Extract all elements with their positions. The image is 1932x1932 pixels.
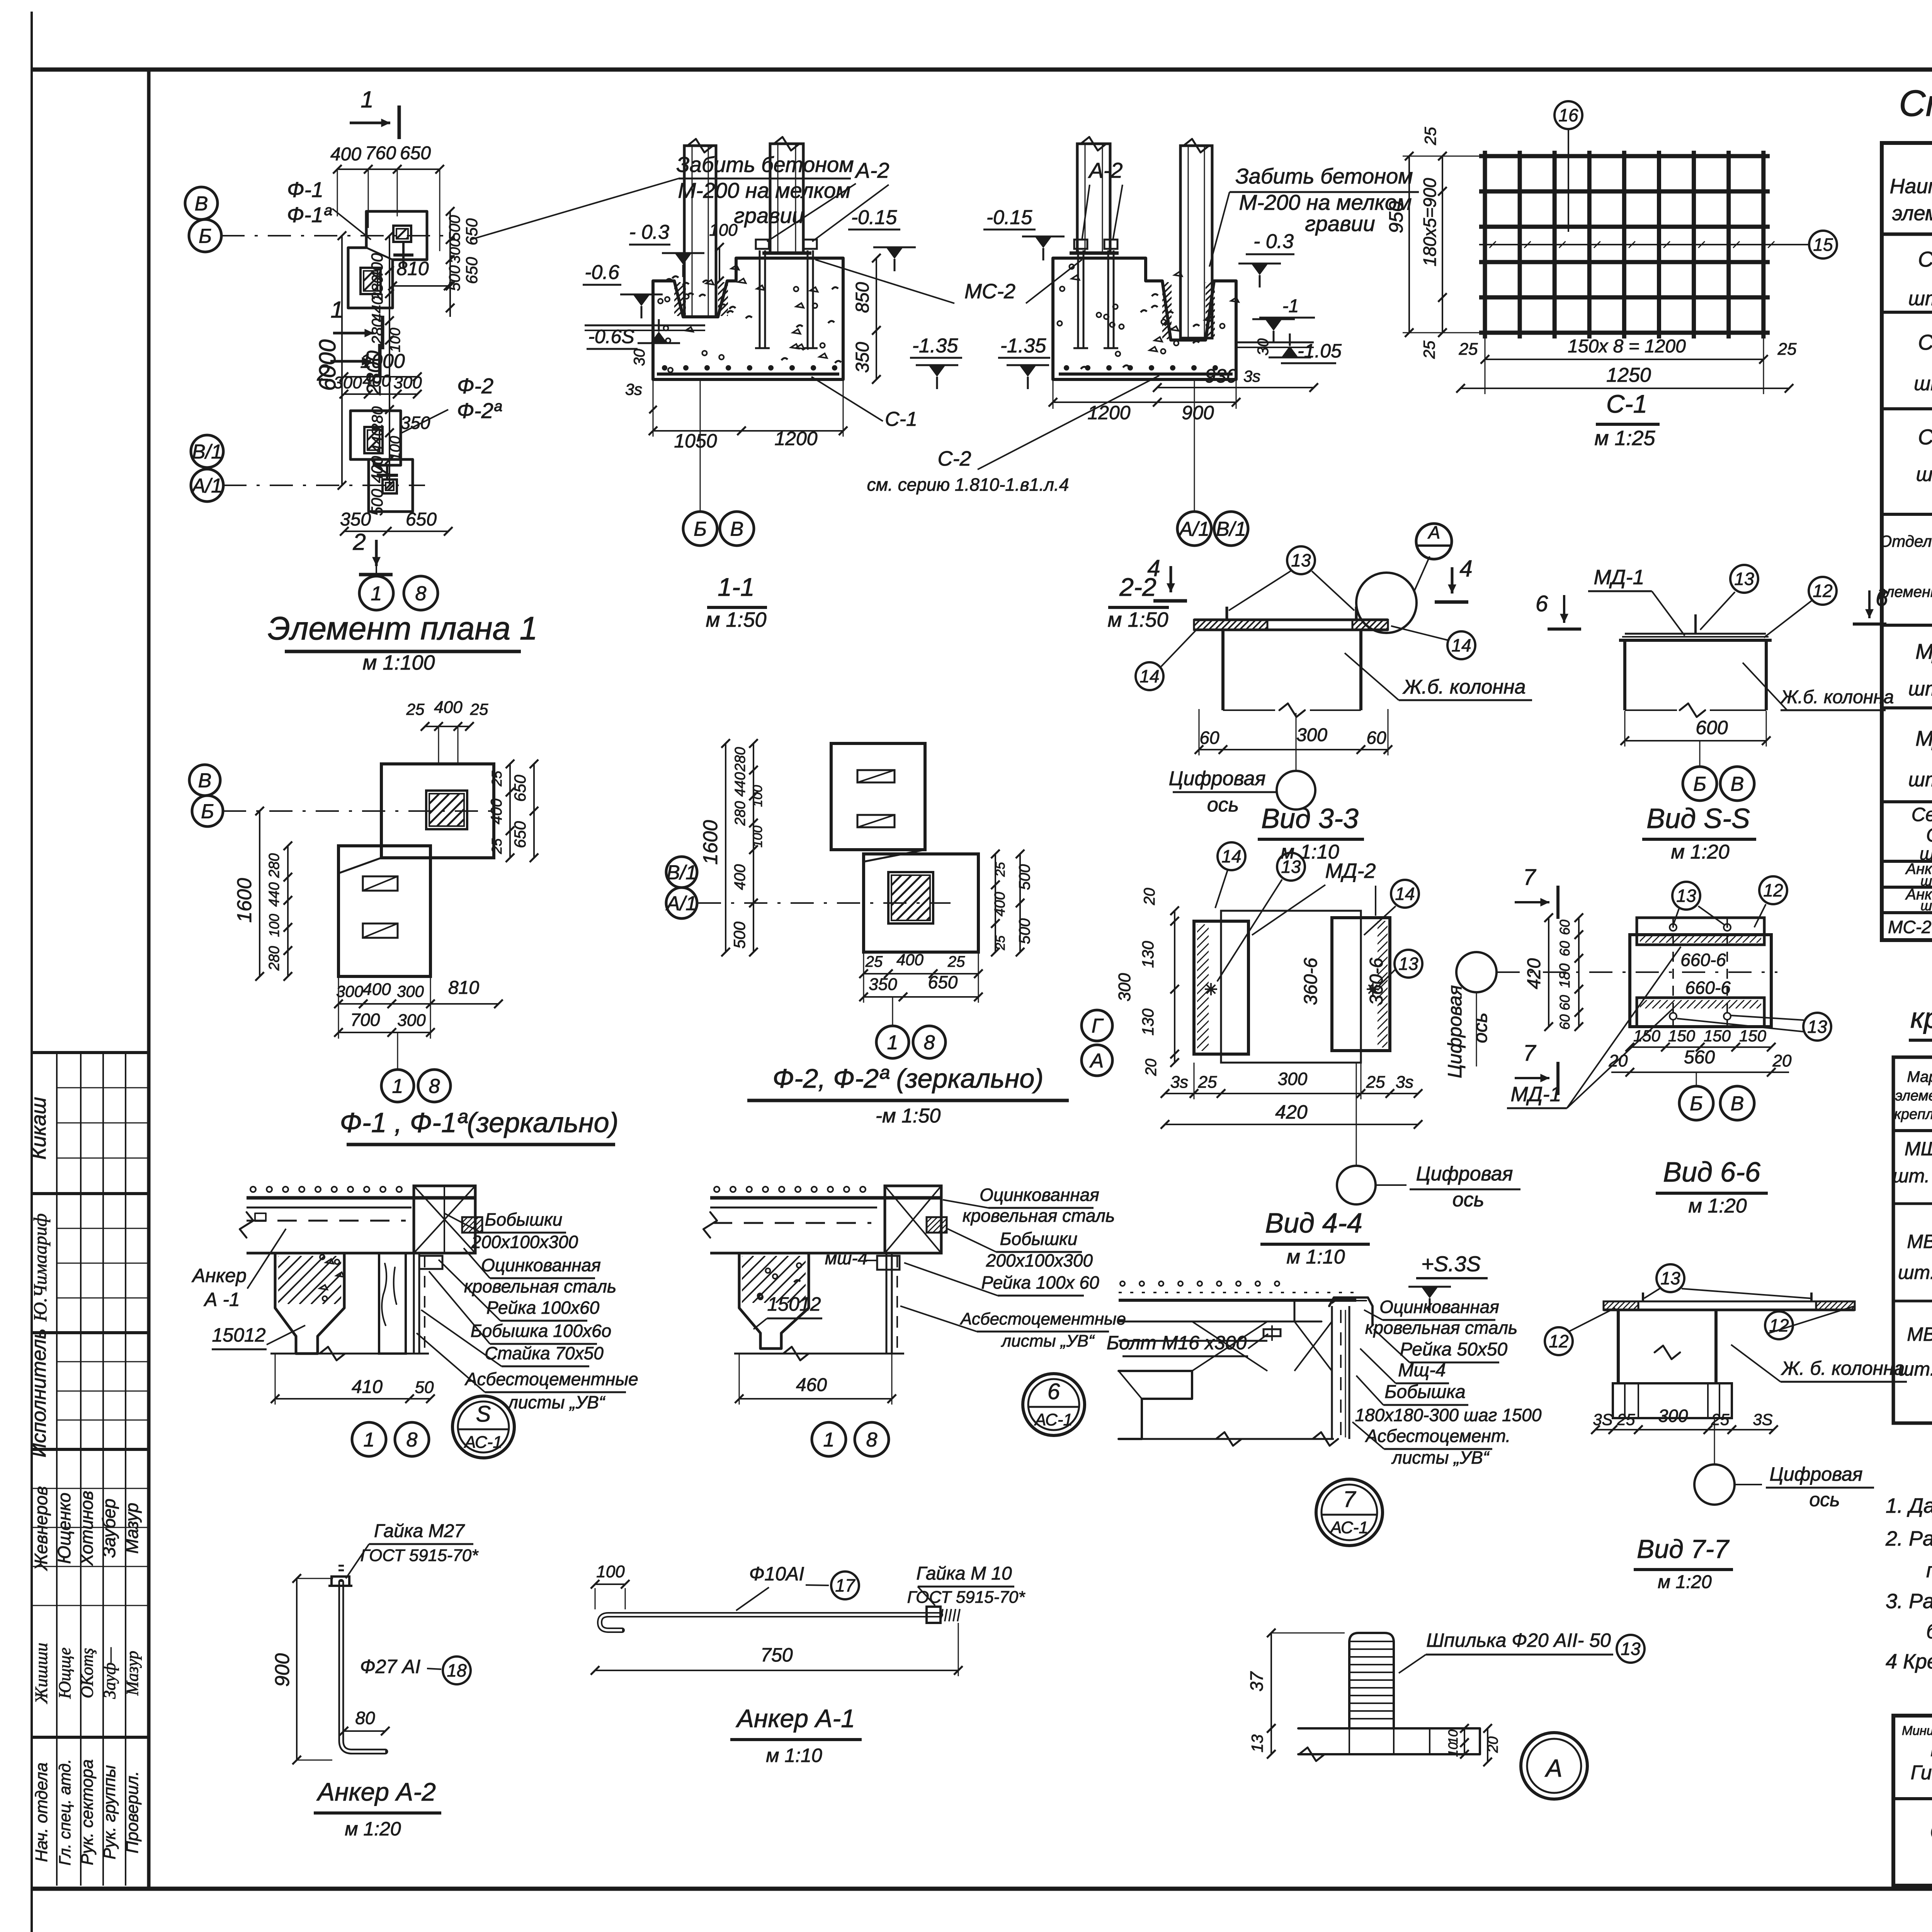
vid 6-6 axis circles — [1679, 1086, 1713, 1120]
svg-text:Цифровая: Цифровая — [1444, 985, 1466, 1078]
anchor A-1 rod — [600, 1615, 940, 1630]
F-2 plan inner square — [888, 872, 933, 923]
svg-text:650: 650 — [406, 509, 437, 530]
vid 4-4 bottom dims — [1165, 1093, 1418, 1094]
svg-text:Ф-2: Ф-2 — [457, 374, 493, 398]
vid 7-7 position circle 12 right — [1765, 1311, 1793, 1339]
svg-text:14: 14 — [1221, 846, 1241, 866]
svg-text:25: 25 — [865, 953, 883, 970]
svg-text:300: 300 — [447, 239, 463, 263]
svg-text:440: 440 — [266, 882, 282, 906]
svg-text:50: 50 — [415, 1378, 434, 1397]
svg-text:Гл. спец. атд.: Гл. спец. атд. — [56, 1759, 74, 1866]
vid 3-3 detail bubble — [1356, 573, 1417, 633]
svg-text:Гайка М 10: Гайка М 10 — [916, 1563, 1012, 1584]
vid 7-7 position circle 13 — [1656, 1264, 1684, 1292]
svg-text:м 1:20: м 1:20 — [1671, 841, 1729, 863]
vid 6-6 bottom dims — [1630, 1046, 1771, 1048]
svg-text:25: 25 — [993, 862, 1008, 877]
svg-text:13: 13 — [1734, 569, 1754, 589]
plan F-2 hatched square — [364, 427, 383, 453]
svg-text:300: 300 — [397, 1011, 426, 1030]
node 5 bottom dims — [275, 1398, 430, 1400]
plan dims 350 650 bottom — [344, 531, 448, 532]
svg-text:300: 300 — [336, 982, 364, 1000]
svg-text:180: 180 — [1557, 963, 1573, 988]
plan axes circles 1 8 — [359, 576, 393, 610]
svg-text:650: 650 — [400, 143, 431, 163]
svg-text:А/1: А/1 — [191, 475, 222, 497]
svg-text:Вид 4-4: Вид 4-4 — [1265, 1208, 1362, 1239]
svg-text:гравии: гравии — [1305, 211, 1375, 236]
svg-text:400: 400 — [362, 371, 391, 390]
svg-text:500: 500 — [730, 921, 748, 949]
svg-text:Г: Г — [1092, 1015, 1104, 1037]
node 6 asbestos sheet — [886, 1253, 888, 1354]
svg-text:300: 300 — [1296, 725, 1327, 745]
svg-text:60: 60 — [1557, 1014, 1573, 1030]
svg-text:100: 100 — [750, 826, 765, 848]
svg-text:1600: 1600 — [233, 878, 256, 923]
svg-text:400: 400 — [434, 698, 463, 717]
svg-text:Мазур: Мазур — [123, 1651, 142, 1696]
svg-text:280: 280 — [732, 747, 748, 772]
svg-text:Бобышки: Бобышки — [1000, 1229, 1078, 1249]
svg-text:-1: -1 — [1282, 296, 1299, 316]
svg-text:Вид S-S: Вид S-S — [1646, 803, 1750, 834]
svg-text:Асбестоцементные: Асбестоцементные — [464, 1369, 638, 1389]
svg-text:А: А — [1427, 522, 1440, 543]
svg-text:650: 650 — [928, 972, 958, 992]
svg-text:МД-1: МД-1 — [1594, 566, 1644, 589]
svg-text:Рейка 100х 60: Рейка 100х 60 — [981, 1272, 1099, 1293]
svg-text:850: 850 — [852, 282, 873, 313]
svg-text:Анкер А-2: Анкер А-2 — [316, 1777, 436, 1806]
svg-text:1. Данный лист рассматриват: 1. Данный лист рассматривать с листом АС… — [1886, 1494, 1932, 1517]
node 7 wall sheet — [1331, 1306, 1333, 1439]
plan F-1 lower hatched square — [361, 268, 381, 294]
svg-text:ГОСТ 5915-70*: ГОСТ 5915-70* — [907, 1588, 1026, 1607]
svg-text:Вид 7-7: Вид 7-7 — [1637, 1534, 1730, 1564]
vid 3-3 cut arrows 4 — [1451, 567, 1454, 594]
svg-text:25: 25 — [1366, 1073, 1385, 1092]
svg-text:750: 750 — [760, 1644, 793, 1666]
svg-text:Спецификация стали на один: Спецификация стали на один элемент — [1899, 83, 1932, 124]
svg-text:3s: 3s — [1170, 1073, 1188, 1092]
vid 7-7 base box — [1613, 1383, 1732, 1418]
svg-text:Цифровая: Цифровая — [1169, 767, 1266, 790]
svg-text:Асбестоцемент.: Асбестоцемент. — [1365, 1426, 1511, 1446]
svg-text:В/1: В/1 — [667, 862, 697, 884]
svg-text:150: 150 — [1739, 1027, 1767, 1045]
F-2 plan bottom dims — [864, 973, 978, 975]
F-1 plan left dims — [287, 846, 289, 976]
anchor A-2 dim 900 — [296, 1578, 298, 1760]
svg-text:15012: 15012 — [212, 1324, 265, 1346]
vid 6-6 tsifrovaya os — [1456, 952, 1497, 992]
svg-text:20: 20 — [1143, 1059, 1160, 1077]
svg-text:А/1: А/1 — [1178, 518, 1209, 541]
svg-text:Анкер А-1: Анкер А-1 — [735, 1704, 855, 1733]
svg-text:Гипросельхозптицепром: Гипросельхозптицепром — [1911, 1762, 1932, 1784]
svg-text:2. Расход древесины на скл: 2. Расход древесины на склад составляет:… — [1885, 1527, 1932, 1550]
svg-text:Рейка 100х60: Рейка 100х60 — [486, 1298, 600, 1318]
plan F-1 column hatched square — [393, 226, 411, 242]
svg-text:400: 400 — [896, 951, 924, 969]
svg-text:см. серию 1.810-1.в1.л.4: см. серию 1.810-1.в1.л.4 — [867, 474, 1069, 495]
vid 6-6 dashed bolts — [1672, 918, 1674, 1027]
svg-text:350: 350 — [401, 413, 430, 433]
stud dims left — [1270, 1633, 1272, 1728]
svg-text:60: 60 — [1366, 728, 1386, 748]
svg-text:8: 8 — [406, 1429, 418, 1451]
svg-text:360-6: 360-6 — [1301, 957, 1321, 1005]
svg-text:500: 500 — [1016, 864, 1033, 890]
svg-text:13: 13 — [1398, 954, 1418, 974]
svg-text:650: 650 — [511, 821, 529, 848]
svg-text:3s: 3s — [1243, 367, 1260, 385]
svg-text:25: 25 — [489, 838, 505, 854]
F-2 plan left dims — [753, 743, 754, 952]
svg-text:Ю.Чимаариф: Ю.Чимаариф — [30, 1213, 51, 1321]
F-2 plan lower rect — [864, 854, 978, 952]
mesh C-1 thin wire 15 — [1479, 244, 1808, 245]
svg-text:810: 810 — [448, 978, 479, 998]
svg-text:13: 13 — [1660, 1268, 1680, 1288]
svg-text:С-1: С-1 — [885, 408, 917, 430]
vid 7-7 top plate — [1604, 1309, 1855, 1311]
svg-text:3. Расход бетона на фундам: 3. Расход бетона на фундаменты Ф-1 и Ф-2… — [1886, 1590, 1932, 1613]
section 1-1 foundation outline — [653, 258, 843, 379]
vid 6-6 left dims — [1578, 918, 1580, 1027]
plan vertical dim 6000 — [341, 236, 343, 485]
node 7 bolt M16 — [1264, 1329, 1281, 1336]
vid 3-3 position circle 13 — [1287, 546, 1315, 574]
stud base plate — [1298, 1728, 1480, 1754]
svg-text:18: 18 — [447, 1660, 467, 1680]
svg-text:420: 420 — [1524, 958, 1544, 989]
plan lower hatched square — [383, 480, 397, 493]
svg-text:Ющенко: Ющенко — [54, 1493, 74, 1564]
svg-text:14: 14 — [1139, 666, 1159, 686]
vid 5-5 column — [1623, 640, 1626, 710]
svg-text:+S.3S: +S.3S — [1421, 1252, 1481, 1276]
svg-text:660-6: 660-6 — [1685, 978, 1731, 998]
node 7 parapet cap — [1329, 1298, 1372, 1325]
svg-text:8: 8 — [924, 1032, 935, 1054]
F-2 plan axis circles — [666, 857, 697, 888]
svg-text:37: 37 — [1247, 1671, 1267, 1692]
svg-text:4: 4 — [1147, 555, 1160, 581]
svg-text:2: 2 — [352, 529, 366, 555]
svg-text:Главсельстройпроект: Главсельстройпроект — [1930, 1740, 1932, 1760]
section 1-1 anchor bolts — [759, 250, 761, 348]
svg-text:м 1:20: м 1:20 — [1658, 1572, 1712, 1592]
vid 3-3 position circles 14 — [1447, 631, 1475, 659]
svg-text:25: 25 — [947, 953, 965, 970]
svg-text:1600: 1600 — [699, 820, 722, 865]
vid 4-4 position circle 13 right — [1395, 950, 1422, 978]
svg-text:Вид 6-6: Вид 6-6 — [1663, 1157, 1761, 1188]
svg-text:Ж. б. колонна: Ж. б. колонна — [1781, 1357, 1905, 1379]
svg-text:1200: 1200 — [774, 428, 817, 449]
svg-text:Склад подстилки: Склад подстилки — [1930, 1819, 1932, 1844]
svg-text:350: 350 — [869, 975, 897, 994]
svg-text:660-6: 660-6 — [1680, 950, 1726, 970]
svg-text:4: 4 — [1459, 556, 1472, 582]
svg-text:кровельная сталь: кровельная сталь — [963, 1206, 1115, 1226]
svg-text:500: 500 — [446, 215, 463, 241]
svg-text:13: 13 — [1676, 886, 1696, 906]
axis circle B — [189, 219, 221, 252]
svg-text:АС-1: АС-1 — [463, 1433, 502, 1452]
mesh left dims — [1408, 156, 1410, 333]
svg-text:25: 25 — [1711, 1410, 1730, 1429]
svg-text:25: 25 — [1420, 340, 1438, 359]
plan section mark 2 bottom — [375, 540, 378, 566]
fastener specification table grid — [1893, 1057, 1932, 1423]
mesh C-1 grid — [1483, 151, 1487, 338]
vid 7-7 bottom dims — [1595, 1429, 1774, 1430]
svg-text:1200: 1200 — [1087, 402, 1130, 423]
node 7 left wall steps — [1119, 1371, 1192, 1439]
svg-text:шт. 24: шт. 24 — [1908, 287, 1932, 310]
svg-text:1250: 1250 — [1606, 364, 1651, 386]
svg-text:-1.35: -1.35 — [912, 335, 959, 357]
axis circle V/1 — [191, 435, 223, 468]
svg-text:Мщ-4: Мщ-4 — [1398, 1360, 1446, 1381]
svg-text:100: 100 — [387, 328, 403, 352]
vid 4-4 right plate — [1332, 918, 1390, 1051]
svg-text:С-1: С-1 — [1926, 824, 1932, 846]
svg-text:МВ-5: МВ-5 — [1907, 1323, 1932, 1345]
svg-text:13: 13 — [1621, 1639, 1641, 1659]
svg-text:3s: 3s — [625, 380, 642, 398]
svg-text:Б: Б — [199, 225, 212, 248]
section 2-2 concrete speckle — [1174, 341, 1179, 345]
vid 3-3 base plate — [1194, 619, 1388, 621]
svg-text:-0.15: -0.15 — [851, 206, 898, 229]
axis circle A/1 — [191, 469, 223, 502]
svg-text:12: 12 — [1763, 880, 1783, 900]
section 1-1 wooden post — [684, 146, 716, 317]
mesh bottom dims — [1485, 359, 1764, 360]
vid 7-7 position circle 12 left — [1545, 1327, 1573, 1355]
svg-text:10: 10 — [1446, 1730, 1461, 1744]
F-1 plan axis circles — [189, 765, 220, 796]
node 7 bottom line — [1119, 1438, 1334, 1440]
section 1-1 concrete speckle — [720, 304, 726, 307]
plan section marks 1 2 middle — [333, 332, 374, 335]
svg-text:шт-4: шт-4 — [1916, 463, 1932, 486]
svg-text:С-1: С-1 — [1606, 389, 1647, 418]
svg-text:300: 300 — [393, 373, 422, 392]
svg-text:Ф-2, Ф-2ª (зеркально): Ф-2, Ф-2ª (зеркально) — [772, 1063, 1043, 1094]
svg-text:-1.35: -1.35 — [1000, 335, 1047, 357]
node 5 concrete column — [275, 1253, 344, 1354]
svg-text:3s: 3s — [1396, 1073, 1413, 1092]
svg-text:350: 350 — [852, 342, 873, 373]
svg-text:-1.05: -1.05 — [1298, 340, 1342, 362]
title block frame — [1893, 1716, 1932, 1886]
plan lower foundation outline — [369, 459, 413, 512]
svg-text:300: 300 — [397, 982, 424, 1000]
svg-text:крепления: крепления — [1894, 1106, 1932, 1122]
svg-text:Министерства сельского хозяйст: Министерства сельского хозяйства ссср — [1902, 1723, 1932, 1738]
node 6 roof slab — [710, 1196, 941, 1200]
section 2-2 foundation outline — [1053, 258, 1236, 379]
svg-text:АС-1: АС-1 — [1034, 1410, 1073, 1429]
svg-text:1050: 1050 — [674, 430, 717, 452]
vid 5-5 position circle 13 — [1730, 565, 1758, 593]
svg-text:МД-2: МД-2 — [1915, 726, 1932, 750]
svg-text:100: 100 — [709, 221, 738, 240]
svg-text:Б: Б — [1690, 1093, 1703, 1115]
svg-text:60: 60 — [1557, 941, 1573, 956]
node 7 roof slab — [1119, 1299, 1356, 1302]
svg-text:400: 400 — [330, 144, 361, 165]
vid 5-5 bottom dim 600 — [1625, 740, 1766, 742]
svg-text:3S: 3S — [1593, 1410, 1612, 1429]
svg-text:Оцинкованная: Оцинкованная — [481, 1255, 601, 1275]
svg-text:Стайка 70х50: Стайка 70х50 — [485, 1343, 604, 1363]
svg-text:м 1:10: м 1:10 — [766, 1745, 822, 1766]
fastener table body — [1893, 1202, 1932, 1205]
svg-text:АС-1: АС-1 — [1329, 1518, 1368, 1537]
vid 4-4 position circle 14 right — [1391, 880, 1419, 908]
svg-text:Жевнеров: Жевнеров — [31, 1486, 51, 1571]
svg-text:Забить бетоном: Забить бетоном — [676, 152, 854, 177]
svg-text:Б: Б — [694, 518, 707, 541]
svg-text:S: S — [476, 1401, 491, 1427]
svg-text:мш-4: мш-4 — [825, 1248, 868, 1268]
svg-text:13: 13 — [1807, 1017, 1827, 1037]
node 6 bottom break line — [734, 1353, 904, 1355]
vid 4-4 left dims — [1174, 911, 1175, 1063]
svg-text:2: 2 — [316, 360, 330, 386]
svg-text:Ф10АI: Ф10АI — [749, 1563, 804, 1585]
section 1-1 bottom dims 1050 1200 — [653, 430, 843, 432]
svg-text:С-2: С-2 — [937, 447, 971, 470]
svg-text:- 0.3: - 0.3 — [629, 221, 669, 243]
svg-text:крепежных элементов: крепежных элементов — [1910, 1002, 1932, 1034]
svg-text:Хотинов: Хотинов — [77, 1491, 97, 1566]
svg-text:900: 900 — [1182, 402, 1214, 423]
F-2 plan circles 1 8 — [876, 1026, 909, 1058]
F-1 plan upper inner square — [426, 791, 467, 829]
vid 4-4 left plate — [1194, 921, 1248, 1054]
svg-text:Мазур: Мазур — [122, 1503, 142, 1554]
vid 6-6 body — [1630, 935, 1771, 1027]
F-1 plan circles 1 8 — [381, 1070, 414, 1102]
svg-text:МС-2 шт. 16: МС-2 шт. 16 — [1888, 917, 1932, 937]
svg-text:СТ-1: СТ-1 — [1918, 247, 1932, 271]
section 2-2 wooden post — [1180, 146, 1212, 338]
svg-text:МД-1: МД-1 — [1510, 1083, 1561, 1106]
svg-text:Наименов.: Наименов. — [1889, 175, 1932, 198]
svg-text:Б: Б — [1693, 773, 1706, 796]
svg-text:14: 14 — [1451, 635, 1471, 655]
svg-text:400: 400 — [488, 799, 505, 825]
svg-text:8: 8 — [866, 1429, 878, 1451]
svg-text:Бобышка 100х6о: Бобышка 100х6о — [471, 1321, 611, 1341]
svg-text:Ющще: Ющще — [55, 1648, 74, 1699]
svg-text:400: 400 — [362, 980, 391, 999]
svg-text:В: В — [1731, 1093, 1744, 1115]
svg-text:ось: ось — [1452, 1189, 1484, 1211]
svg-text:ОКотş: ОКотş — [78, 1648, 97, 1698]
svg-text:15: 15 — [1813, 235, 1833, 255]
svg-text:ось: ось — [1207, 794, 1239, 816]
svg-text:300: 300 — [333, 373, 362, 392]
svg-text:180х180-300 шаг 1500: 180х180-300 шаг 1500 — [1355, 1405, 1542, 1425]
svg-text:-м 1:50: -м 1:50 — [876, 1105, 941, 1127]
svg-text:25: 25 — [1617, 1410, 1635, 1429]
section 1-1 axis circles — [683, 512, 717, 546]
svg-text:Зауф—: Зауф— — [100, 1647, 119, 1699]
svg-text:Анкер: Анкер — [191, 1265, 247, 1286]
svg-text:280: 280 — [732, 801, 748, 826]
svg-text:Шпилька Ф20 АII- 50: Шпилька Ф20 АII- 50 — [1426, 1629, 1611, 1651]
svg-text:В/1: В/1 — [1216, 518, 1246, 541]
svg-text:700: 700 — [350, 1010, 380, 1030]
section 2-2 ground lines right — [1236, 342, 1314, 344]
svg-text:Вид 3-3: Вид 3-3 — [1261, 803, 1359, 834]
svg-text:17: 17 — [835, 1575, 855, 1595]
svg-text:10: 10 — [1446, 1742, 1461, 1757]
svg-text:60: 60 — [1557, 920, 1573, 935]
svg-text:Заубер: Заубер — [99, 1498, 119, 1558]
anchor A-2 dim 80 — [344, 1730, 385, 1732]
svg-text:150х 8 = 1200: 150х 8 = 1200 — [1568, 336, 1686, 357]
vid 3-3 bottom dims — [1199, 749, 1388, 750]
svg-text:- 0.3: - 0.3 — [1253, 230, 1294, 253]
svg-text:1000: 1000 — [360, 350, 405, 372]
svg-text:Ж.б. колонна: Ж.б. колонна — [1402, 676, 1526, 698]
svg-text:8: 8 — [429, 1075, 440, 1098]
svg-text:МШ-4: МШ-4 — [1905, 1138, 1932, 1160]
svg-text:100: 100 — [266, 914, 282, 937]
steel specification table grid — [1882, 143, 1932, 940]
svg-text:130: 130 — [1139, 1008, 1157, 1036]
svg-text:13: 13 — [1291, 550, 1311, 570]
section 2-2 axis circles — [1177, 512, 1211, 546]
svg-text:1: 1 — [330, 297, 343, 323]
svg-text:Рук. группы: Рук. группы — [100, 1765, 119, 1859]
F-2 plan right dims — [995, 854, 996, 952]
anchor A-2 rod — [341, 1582, 385, 1752]
svg-text:410: 410 — [352, 1377, 383, 1397]
svg-text:350: 350 — [340, 509, 371, 530]
svg-text:А: А — [1544, 1754, 1563, 1782]
svg-text:100: 100 — [750, 785, 765, 807]
svg-text:80: 80 — [355, 1708, 375, 1728]
svg-text:-0.15: -0.15 — [986, 206, 1033, 229]
svg-text:ось: ось — [1469, 1012, 1491, 1043]
F-1 plan upper rect — [381, 764, 494, 858]
svg-text:Ф27 АI: Ф27 АI — [360, 1656, 421, 1677]
node 5 edge beam — [414, 1186, 475, 1253]
svg-text:В: В — [1731, 773, 1744, 796]
svg-text:900: 900 — [271, 1653, 294, 1687]
svg-text:600: 600 — [1696, 717, 1728, 738]
svg-text:Отдельн.: Отдельн. — [1879, 532, 1932, 550]
node 6 concrete column — [739, 1253, 809, 1349]
svg-text:12: 12 — [1813, 581, 1832, 601]
svg-text:Бобышка: Бобышка — [1384, 1382, 1465, 1402]
svg-text:460: 460 — [796, 1375, 827, 1395]
svg-text:Сетка: Сетка — [1912, 804, 1932, 825]
